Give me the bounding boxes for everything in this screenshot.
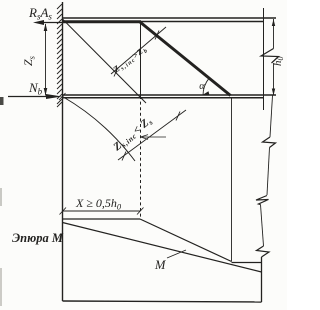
tick bbox=[137, 208, 144, 215]
diagonal D2 from N_b corner bbox=[63, 97, 136, 162]
bottom chord upper line bbox=[62, 94, 276, 96]
envelope inclined part bbox=[140, 219, 232, 262]
inclined crack (thick) bbox=[140, 22, 231, 96]
RsAs force arrow bbox=[37, 22, 62, 24]
right extension line segment 3 bbox=[261, 205, 264, 247]
Zs dimension line bbox=[45, 24, 47, 96]
bottom chord lower line bbox=[62, 97, 264, 99]
break zigzag bbox=[257, 246, 270, 257]
beam top inner line bbox=[62, 21, 264, 23]
X dimension line bbox=[63, 210, 141, 212]
left edge smudge bbox=[0, 97, 4, 105]
beam top edge (upper thin line) bbox=[62, 17, 276, 19]
beam end cut line bbox=[263, 8, 265, 110]
M leader line bbox=[167, 250, 186, 258]
vertical from crack tip to envelope bbox=[231, 98, 233, 262]
section line at crack start (solid above chord) bbox=[140, 22, 142, 96]
junction tick at support/chord bbox=[59, 93, 66, 100]
Nb force arrow bbox=[8, 96, 50, 98]
svg-text:Эпюра M: Эпюра M bbox=[12, 231, 64, 245]
support edge vertical (beam left face) bbox=[62, 2, 64, 301]
break zigzag bbox=[256, 196, 269, 205]
h0 dimension line lower part bbox=[273, 63, 275, 96]
svg-text:M: M bbox=[154, 258, 166, 272]
moment diagram M line bbox=[63, 223, 262, 273]
scanner streak 2 bbox=[0, 268, 2, 306]
dimension line Zs,inc < Zs bbox=[118, 110, 186, 160]
dimension line Zs,inc > Zb bbox=[111, 27, 166, 74]
tick bbox=[60, 208, 67, 215]
tick bbox=[176, 112, 180, 121]
h0 arrow down bbox=[272, 89, 275, 96]
envelope top horizontal bbox=[63, 218, 141, 220]
moment box right edge bbox=[261, 257, 263, 302]
hatching on support bbox=[57, 4, 62, 107]
diagonal D1 from top corner bbox=[63, 19, 147, 103]
tick bbox=[155, 31, 159, 40]
tick bbox=[114, 68, 118, 77]
break zigzag bbox=[263, 137, 276, 148]
svg-text:α: α bbox=[199, 81, 205, 92]
alpha angle arc bbox=[203, 78, 209, 96]
scanner streak 1 bbox=[0, 188, 2, 206]
tick bbox=[122, 152, 126, 161]
compression chord (thick) bbox=[62, 20, 141, 23]
h0 dimension line upper part bbox=[273, 19, 275, 49]
svg-text:X ≥ 0,5h0: X ≥ 0,5h0 bbox=[75, 196, 122, 212]
right extension line segment 1 bbox=[270, 96, 273, 138]
section line dashed continuation bbox=[140, 96, 142, 219]
leader arrow to section line bbox=[141, 136, 167, 138]
h0 arrow up bbox=[272, 19, 275, 26]
h0 break zigzag bbox=[261, 49, 279, 64]
envelope bottom horizontal bbox=[232, 262, 262, 264]
bottom edge of moment box bbox=[63, 301, 262, 302]
right extension line segment 2 bbox=[267, 148, 270, 196]
